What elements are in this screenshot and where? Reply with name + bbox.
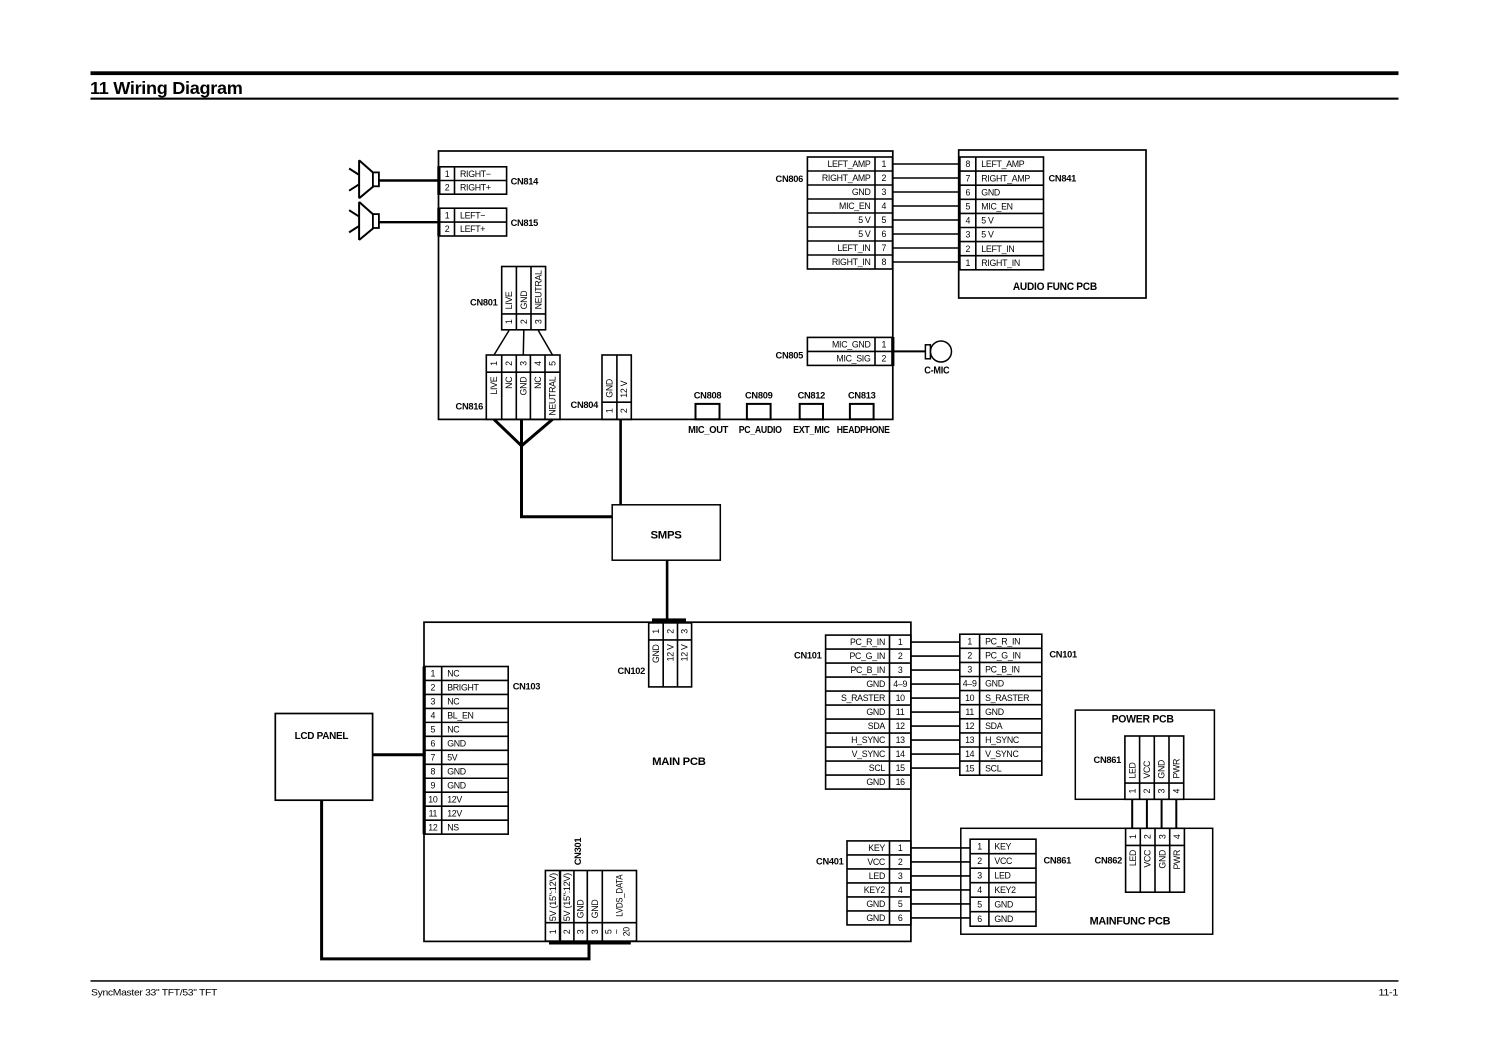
svg-text:GND: GND (985, 707, 1004, 717)
svg-text:10: 10 (896, 693, 906, 703)
svg-text:2: 2 (881, 354, 886, 364)
wire CN806 pin 1 to CN841 (893, 163, 959, 165)
svg-text:PWR: PWR (1172, 850, 1182, 870)
svg-text:NEUTRAL: NEUTRAL (548, 376, 558, 415)
wire CN801-3 to CN816-5 (538, 331, 552, 356)
svg-text:VCC: VCC (867, 857, 886, 867)
svg-text:CN101: CN101 (794, 651, 822, 661)
connector CN301 (549, 941, 631, 944)
connector CN812 (800, 404, 823, 419)
svg-text:10: 10 (428, 794, 438, 804)
svg-text:1: 1 (966, 258, 971, 268)
svg-text:KEY: KEY (994, 842, 1011, 852)
svg-text:5: 5 (977, 900, 982, 910)
svg-text:CN861: CN861 (1094, 755, 1122, 765)
svg-text:NC: NC (504, 376, 514, 389)
svg-text:3: 3 (967, 665, 972, 675)
svg-text:8: 8 (431, 766, 436, 776)
svg-text:3: 3 (966, 230, 971, 240)
svg-text:1: 1 (605, 408, 615, 413)
svg-text:5 V: 5 V (981, 216, 994, 226)
svg-text:3: 3 (680, 629, 690, 634)
svg-text:SDA: SDA (985, 721, 1003, 731)
svg-text:VCC: VCC (994, 856, 1013, 866)
connector CN806 (807, 157, 892, 269)
svg-text:1: 1 (431, 669, 436, 679)
svg-text:CN801: CN801 (470, 298, 498, 308)
wire CN804 to SMPS (619, 419, 622, 504)
svg-text:3: 3 (533, 319, 543, 324)
svg-text:14: 14 (965, 749, 975, 759)
svg-text:GND: GND (852, 187, 871, 197)
wire CN801-1 to CN816-1 (494, 331, 509, 356)
svg-text:5: 5 (881, 215, 886, 225)
svg-text:13: 13 (965, 735, 975, 745)
svg-text:PC_R_IN: PC_R_IN (985, 636, 1020, 646)
svg-text:2: 2 (431, 683, 436, 693)
svg-text:RIGHT−: RIGHT− (460, 169, 491, 179)
svg-text:LIVE: LIVE (489, 376, 499, 394)
wire SMPS to CN102 (666, 560, 669, 619)
svg-text:CN814: CN814 (511, 177, 540, 187)
wire CN861 pin 1 to CN862 (1131, 799, 1133, 828)
svg-text:LED: LED (1128, 850, 1138, 866)
svg-text:LEFT_IN: LEFT_IN (837, 243, 870, 253)
svg-text:SyncMaster 33" TFT/53" TFT: SyncMaster 33" TFT/53" TFT (91, 988, 218, 998)
svg-text:7: 7 (431, 752, 436, 762)
svg-text:5: 5 (431, 724, 436, 734)
svg-text:6: 6 (881, 229, 886, 239)
connector CN801 (502, 267, 546, 330)
MAIN PCB box (424, 622, 911, 941)
svg-text:3: 3 (518, 361, 528, 366)
wire CN401 pin 3 (911, 875, 970, 877)
svg-text:CN862: CN862 (1095, 856, 1123, 866)
svg-text:2: 2 (619, 408, 629, 413)
svg-text:GND: GND (866, 899, 885, 909)
svg-text:1: 1 (898, 637, 903, 647)
svg-text:VCC: VCC (1142, 760, 1152, 779)
svg-text:15: 15 (965, 763, 975, 773)
wire CN806 pin 3 to CN841 (893, 191, 959, 193)
svg-text:16: 16 (896, 777, 906, 787)
svg-text:4: 4 (881, 201, 886, 211)
svg-text:GND: GND (447, 780, 466, 790)
wire CN101 row 5 (911, 697, 960, 699)
SMPS box (612, 505, 720, 560)
svg-text:4: 4 (1172, 834, 1182, 839)
svg-text:LED: LED (994, 871, 1010, 881)
svg-text:3: 3 (1157, 834, 1167, 839)
svg-text:5V: 5V (447, 752, 458, 762)
svg-text:GND: GND (866, 913, 885, 923)
svg-text:2: 2 (519, 319, 529, 324)
wire CN861 pin 3 to CN862 (1161, 799, 1163, 828)
svg-text:CN301: CN301 (573, 838, 583, 866)
svg-text:NC: NC (447, 724, 460, 734)
svg-text:3: 3 (590, 929, 600, 934)
svg-text:GND: GND (651, 644, 661, 663)
svg-text:6: 6 (431, 738, 436, 748)
svg-text:5: 5 (966, 201, 971, 211)
wire CN806 pin 4 to CN841 (893, 205, 959, 207)
wire CN806 pin 6 to CN841 (893, 233, 959, 235)
wire CN816-1 down to junction (494, 419, 522, 445)
svg-text:1: 1 (504, 319, 514, 324)
svg-text:1: 1 (489, 361, 499, 366)
svg-text:1: 1 (651, 629, 661, 634)
svg-text:GND: GND (866, 679, 885, 689)
wire CN401 pin 2 (911, 861, 970, 863)
wire CN401 pin 5 (911, 903, 970, 905)
svg-text:1: 1 (967, 636, 972, 646)
connector CN102 (652, 618, 686, 621)
svg-text:H_SYNC: H_SYNC (985, 735, 1020, 745)
svg-text:CN812: CN812 (798, 390, 826, 400)
wire CN401 pin 6 (911, 917, 970, 919)
svg-text:GND: GND (1157, 850, 1167, 869)
svg-text:2: 2 (445, 182, 450, 192)
svg-text:9: 9 (431, 780, 436, 790)
svg-text:6: 6 (966, 187, 971, 197)
svg-text:11: 11 (429, 808, 438, 818)
svg-text:3: 3 (576, 929, 586, 934)
svg-text:1: 1 (445, 210, 450, 220)
svg-text:KEY2: KEY2 (864, 885, 886, 895)
svg-text:GND: GND (447, 766, 466, 776)
svg-text:11 Wiring Diagram: 11 Wiring Diagram (90, 78, 243, 98)
svg-text:GND: GND (605, 379, 615, 398)
wire CN816-3 down then right to SMPS (522, 419, 613, 516)
svg-text:2: 2 (665, 629, 675, 634)
MAINFUNC PCB box (961, 828, 1213, 934)
svg-text:GND: GND (994, 900, 1013, 910)
svg-text:NC: NC (447, 697, 460, 707)
svg-text:RIGHT+: RIGHT+ (460, 182, 491, 192)
svg-text:BL_EN: BL_EN (447, 710, 473, 720)
svg-text:5V (15":12V): 5V (15":12V) (562, 873, 572, 921)
C-MIC microphone (925, 345, 930, 359)
svg-text:MIC_EN: MIC_EN (981, 201, 1012, 211)
svg-text:LEFT+: LEFT+ (460, 224, 485, 234)
svg-text:SDA: SDA (868, 721, 886, 731)
svg-text:4: 4 (533, 361, 543, 366)
title rule thick (91, 71, 1399, 75)
svg-text:LEFT_AMP: LEFT_AMP (981, 159, 1024, 169)
svg-text:MAINFUNC PCB: MAINFUNC PCB (1090, 916, 1171, 928)
svg-text:SCL: SCL (985, 763, 1002, 773)
svg-text:2: 2 (966, 244, 971, 254)
svg-text:2: 2 (504, 361, 514, 366)
svg-text:RIGHT_AMP: RIGHT_AMP (981, 173, 1030, 183)
svg-text:PC_AUDIO: PC_AUDIO (739, 425, 783, 436)
svg-text:CN815: CN815 (511, 218, 539, 228)
svg-text:3: 3 (898, 871, 903, 881)
svg-text:CN101: CN101 (1049, 650, 1077, 660)
connector CN862 (1126, 828, 1185, 892)
svg-text:RIGHT_AMP: RIGHT_AMP (822, 173, 871, 183)
svg-text:CN102: CN102 (618, 666, 646, 676)
wire CN101 row 4 (911, 683, 960, 685)
svg-text:SMPS: SMPS (651, 530, 682, 542)
POWER PCB box (1075, 710, 1214, 799)
svg-text:4: 4 (966, 216, 971, 226)
speaker left (358, 202, 360, 240)
connector CN861 power (1125, 736, 1184, 799)
svg-text:11: 11 (965, 707, 974, 717)
svg-text:2: 2 (1143, 834, 1153, 839)
svg-text:3: 3 (881, 187, 886, 197)
svg-text:GND: GND (519, 291, 529, 310)
svg-text:AUDIO FUNC PCB: AUDIO FUNC PCB (1013, 281, 1097, 293)
svg-text:CN816: CN816 (456, 402, 484, 412)
svg-text:12 V: 12 V (665, 644, 675, 661)
svg-text:1: 1 (881, 159, 886, 169)
wire CN101 row 8 (911, 739, 960, 741)
svg-text:SCL: SCL (869, 763, 886, 773)
svg-text:GND: GND (866, 707, 885, 717)
wire CN101 row 10 (911, 767, 960, 769)
svg-text:GND: GND (518, 377, 528, 396)
connector CN841 (960, 157, 1044, 270)
svg-text:C-MIC: C-MIC (924, 366, 949, 377)
svg-text:LVDS_DATA: LVDS_DATA (615, 874, 625, 916)
connector CN808 (696, 404, 720, 419)
connector CN804 (602, 355, 631, 419)
svg-text:LIVE: LIVE (504, 291, 514, 309)
svg-text:4: 4 (1171, 788, 1181, 793)
svg-text:S_RASTER: S_RASTER (985, 693, 1029, 703)
wire CN101 row 9 (911, 753, 960, 755)
svg-text:EXT_MIC: EXT_MIC (793, 425, 830, 436)
title rule thin (91, 98, 1399, 100)
svg-text:6: 6 (898, 913, 903, 923)
svg-text:KEY: KEY (868, 843, 885, 853)
svg-text:CN806: CN806 (776, 174, 804, 184)
svg-text:3: 3 (977, 871, 982, 881)
wire CN806 pin 7 to CN841 (893, 247, 959, 249)
connector CN814 (437, 166, 440, 195)
svg-text:MIC_OUT: MIC_OUT (688, 425, 728, 436)
wire CN805 to C-MIC (894, 350, 925, 352)
svg-text:2: 2 (445, 224, 450, 234)
wire CN401 pin 4 (911, 889, 970, 891)
connector CN103 (423, 667, 426, 835)
svg-text:NEUTRAL: NEUTRAL (533, 270, 543, 309)
connector CN101 cable (960, 634, 1042, 775)
svg-text:LED: LED (869, 871, 885, 881)
svg-text:KEY2: KEY2 (994, 885, 1016, 895)
svg-text:20: 20 (622, 927, 632, 937)
svg-text:GND: GND (576, 900, 586, 919)
wire CN101 row 1 (911, 641, 960, 643)
svg-text:S_RASTER: S_RASTER (841, 693, 885, 703)
wire speaker right to CN814 (379, 179, 440, 181)
wire CN101 row 6 (911, 711, 960, 713)
connector CN813 (850, 404, 874, 419)
svg-text:8: 8 (966, 159, 971, 169)
svg-text:5 V: 5 V (858, 229, 871, 239)
svg-text:3: 3 (1157, 788, 1167, 793)
svg-text:CN103: CN103 (513, 682, 541, 692)
svg-text:MIC_EN: MIC_EN (839, 201, 870, 211)
svg-text:POWER PCB: POWER PCB (1112, 714, 1174, 726)
svg-text:CN813: CN813 (848, 390, 876, 400)
svg-text:GND: GND (866, 777, 885, 787)
svg-text:11: 11 (896, 707, 905, 717)
svg-text:2: 2 (562, 929, 572, 934)
svg-text:LCD PANEL: LCD PANEL (295, 731, 349, 742)
svg-text:1: 1 (898, 843, 903, 853)
svg-text:1: 1 (445, 169, 450, 179)
svg-text:CN861: CN861 (1044, 856, 1072, 866)
svg-text:CN401: CN401 (816, 857, 844, 867)
svg-text:12 V: 12 V (680, 644, 690, 661)
svg-text:NS: NS (447, 822, 459, 832)
svg-text:LEFT_IN: LEFT_IN (981, 244, 1014, 254)
svg-text:12: 12 (965, 721, 975, 731)
svg-text:12 V: 12 V (619, 380, 629, 397)
svg-text:2: 2 (1142, 788, 1152, 793)
connector CN809 (747, 404, 771, 419)
svg-text:PC_G_IN: PC_G_IN (985, 650, 1021, 660)
svg-text:3: 3 (431, 697, 436, 707)
svg-text:NC: NC (447, 669, 460, 679)
audio main box (439, 151, 893, 419)
svg-text:NC: NC (533, 376, 543, 389)
svg-text:CN808: CN808 (694, 390, 722, 400)
svg-text:2: 2 (977, 856, 982, 866)
svg-text:4–9: 4–9 (963, 679, 977, 689)
svg-text:RIGHT_IN: RIGHT_IN (832, 257, 871, 267)
wire CN101 row 3 (911, 669, 960, 671)
svg-text:6: 6 (977, 914, 982, 924)
wire speaker left to CN815 (379, 221, 440, 223)
wire CN806 pin 2 to CN841 (893, 177, 959, 179)
wire CN806 pin 5 to CN841 (893, 219, 959, 221)
svg-text:H_SYNC: H_SYNC (851, 735, 886, 745)
svg-text:13: 13 (896, 735, 906, 745)
svg-text:5: 5 (898, 899, 903, 909)
svg-text:GND: GND (981, 187, 1000, 197)
svg-text:7: 7 (966, 173, 971, 183)
wire CN101 row 7 (911, 725, 960, 727)
svg-text:5V (15":12V): 5V (15":12V) (548, 873, 558, 921)
svg-text:RIGHT_IN: RIGHT_IN (981, 258, 1020, 268)
wire CN861 pin 4 to CN862 (1175, 799, 1177, 828)
svg-text:5 V: 5 V (981, 230, 994, 240)
AUDIO FUNC PCB box (959, 150, 1146, 298)
svg-text:8: 8 (881, 257, 886, 267)
connector CN101 main pcb (826, 635, 911, 789)
wire CN801-2 to CN816-3 (522, 331, 525, 356)
svg-text:CN805: CN805 (776, 351, 804, 361)
svg-text:12V: 12V (447, 808, 462, 818)
svg-text:12V: 12V (447, 794, 462, 804)
svg-text:MIC_GND: MIC_GND (832, 340, 870, 350)
svg-text:PWR: PWR (1171, 759, 1181, 779)
svg-text:11-1: 11-1 (1379, 988, 1399, 998)
svg-text:12: 12 (896, 721, 906, 731)
footer rule (91, 980, 1399, 982)
svg-text:~: ~ (612, 929, 622, 934)
svg-text:2: 2 (967, 650, 972, 660)
svg-text:4: 4 (898, 885, 903, 895)
svg-text:LEFT_AMP: LEFT_AMP (827, 159, 870, 169)
svg-text:2: 2 (898, 651, 903, 661)
svg-text:12: 12 (428, 822, 438, 832)
svg-text:5: 5 (548, 361, 558, 366)
wire CN101 row 2 (911, 655, 960, 657)
LCD PANEL box (275, 714, 372, 801)
svg-text:GND: GND (590, 900, 600, 919)
svg-text:GND: GND (447, 738, 466, 748)
svg-text:2: 2 (881, 173, 886, 183)
svg-text:1: 1 (548, 929, 558, 934)
connector CN815 (437, 208, 440, 237)
connector CN816 (486, 355, 560, 419)
svg-text:PC_B_IN: PC_B_IN (850, 665, 885, 675)
svg-text:MAIN PCB: MAIN PCB (652, 756, 706, 768)
connector CN401 (847, 841, 911, 925)
connector CN861 keypad (970, 839, 1036, 926)
svg-text:15: 15 (896, 763, 906, 773)
svg-text:LEFT−: LEFT− (460, 210, 485, 220)
svg-text:LED: LED (1127, 762, 1137, 778)
wire LCD PANEL to CN103 (373, 753, 424, 756)
wire CN806 pin 8 to CN841 (893, 261, 959, 263)
svg-text:V_SYNC: V_SYNC (985, 749, 1019, 759)
svg-text:7: 7 (881, 243, 886, 253)
svg-text:BRIGHT: BRIGHT (447, 683, 479, 693)
svg-text:PC_G_IN: PC_G_IN (849, 651, 885, 661)
connector CN805 (807, 337, 892, 365)
svg-text:4: 4 (977, 885, 982, 895)
svg-text:HEADPHONE: HEADPHONE (837, 425, 891, 436)
svg-text:10: 10 (965, 693, 975, 703)
svg-text:CN841: CN841 (1049, 174, 1077, 184)
svg-text:VCC: VCC (1143, 849, 1153, 868)
wire CN861 pin 2 to CN862 (1146, 799, 1148, 828)
svg-text:2: 2 (898, 857, 903, 867)
speaker right (358, 160, 360, 198)
wire CN816-5 down to junction (522, 419, 553, 445)
svg-text:14: 14 (896, 749, 906, 759)
svg-text:5 V: 5 V (858, 215, 871, 225)
svg-text:GND: GND (1157, 760, 1167, 779)
svg-text:4–9: 4–9 (893, 679, 907, 689)
wire CN401 pin 1 (911, 847, 970, 849)
svg-text:CN804: CN804 (571, 400, 600, 410)
svg-text:V_SYNC: V_SYNC (852, 749, 886, 759)
svg-text:4: 4 (431, 710, 436, 720)
svg-text:CN809: CN809 (745, 390, 773, 400)
svg-text:3: 3 (898, 665, 903, 675)
svg-text:1: 1 (1128, 834, 1138, 839)
svg-text:1: 1 (1127, 788, 1137, 793)
wire LCD PANEL to CN301 (322, 800, 589, 959)
svg-text:PC_R_IN: PC_R_IN (850, 637, 885, 647)
svg-text:1: 1 (977, 842, 982, 852)
svg-text:GND: GND (994, 914, 1013, 924)
svg-text:1: 1 (881, 340, 886, 350)
svg-text:MIC_SIG: MIC_SIG (836, 354, 871, 364)
svg-text:PC_B_IN: PC_B_IN (985, 665, 1020, 675)
svg-text:GND: GND (985, 679, 1004, 689)
